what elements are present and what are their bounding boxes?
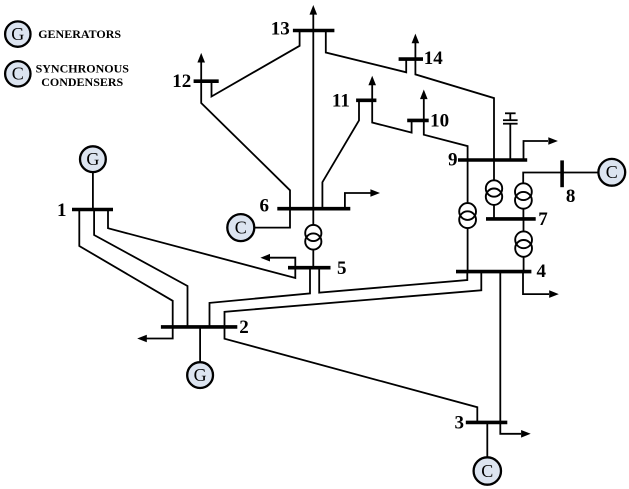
svg-text:13: 13 [271, 19, 290, 40]
svg-text:7: 7 [538, 209, 548, 230]
svg-text:C: C [481, 461, 493, 481]
svg-text:8: 8 [566, 186, 576, 207]
svg-text:12: 12 [172, 71, 191, 92]
svg-text:5: 5 [337, 258, 347, 279]
svg-text:C: C [235, 218, 247, 238]
svg-text:CONDENSERS: CONDENSERS [41, 75, 123, 89]
svg-text:2: 2 [239, 317, 249, 338]
svg-text:C: C [12, 64, 24, 84]
svg-text:9: 9 [448, 150, 458, 171]
svg-text:10: 10 [430, 111, 449, 132]
svg-text:14: 14 [424, 48, 444, 69]
svg-text:4: 4 [537, 261, 547, 282]
svg-text:G: G [11, 24, 24, 44]
svg-text:SYNCHRONOUS: SYNCHRONOUS [36, 62, 130, 76]
svg-text:1: 1 [57, 200, 67, 221]
svg-text:3: 3 [454, 413, 464, 434]
svg-text:G: G [194, 365, 207, 385]
svg-text:G: G [86, 149, 99, 169]
svg-text:6: 6 [259, 196, 269, 217]
svg-text:GENERATORS: GENERATORS [38, 27, 121, 41]
svg-text:11: 11 [332, 91, 350, 112]
svg-text:C: C [606, 162, 618, 182]
